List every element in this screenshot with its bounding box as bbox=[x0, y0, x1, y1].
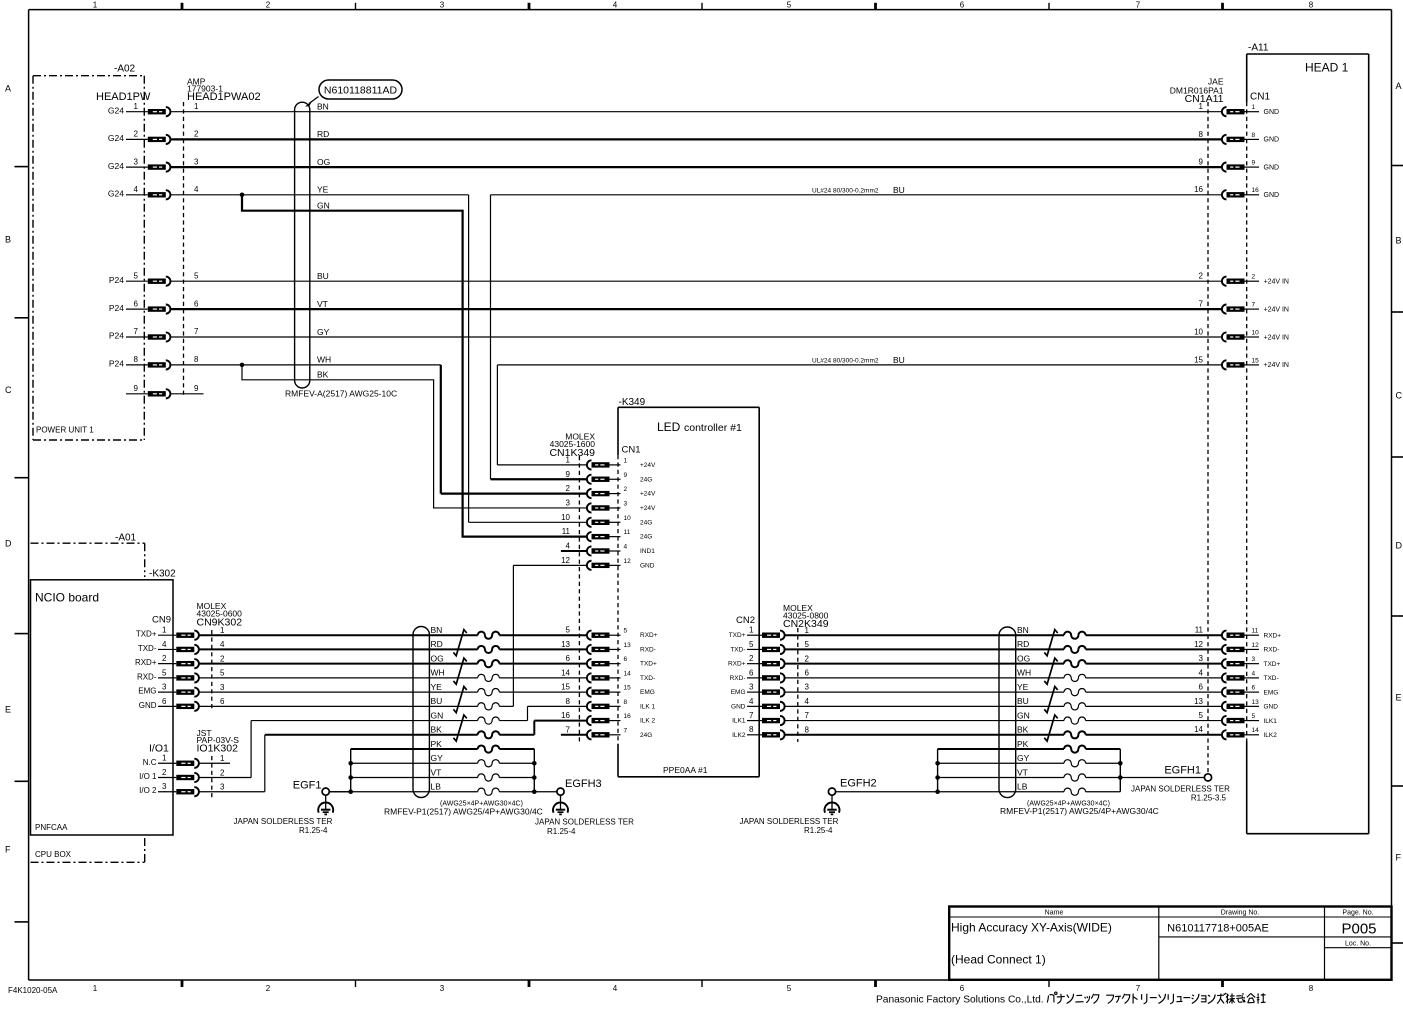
svg-text:2: 2 bbox=[266, 1, 271, 10]
wire YE CN2-3 to CN1A11-6 bbox=[785, 682, 1222, 696]
connector CN9K302 (MOLEX 43025-0600) bbox=[135, 601, 242, 711]
ground terminal EGF1 bbox=[234, 780, 351, 836]
svg-text:2: 2 bbox=[266, 984, 271, 993]
svg-text:BU: BU bbox=[317, 271, 329, 281]
svg-text:2: 2 bbox=[805, 654, 810, 663]
svg-text:GND: GND bbox=[1264, 109, 1280, 116]
svg-text:WH: WH bbox=[1017, 668, 1031, 678]
svg-text:5: 5 bbox=[194, 271, 199, 280]
svg-text:7: 7 bbox=[134, 327, 139, 336]
svg-text:7: 7 bbox=[749, 711, 754, 720]
svg-text:EMG: EMG bbox=[1264, 689, 1279, 696]
svg-text:HEAD1PW: HEAD1PW bbox=[96, 91, 151, 103]
stub CN1K349-7 24G bbox=[561, 734, 587, 736]
svg-text:1: 1 bbox=[566, 455, 571, 464]
svg-text:+24V IN: +24V IN bbox=[1264, 334, 1290, 341]
wire VT P24-6 to CN1A11-7 bbox=[170, 299, 1222, 309]
svg-text:3: 3 bbox=[194, 157, 199, 166]
svg-text:ILK 2: ILK 2 bbox=[640, 718, 656, 725]
svg-text:IO1K302: IO1K302 bbox=[197, 743, 239, 755]
svg-text:PPE0AA #1: PPE0AA #1 bbox=[663, 765, 708, 775]
svg-text:E: E bbox=[5, 705, 11, 715]
title block bbox=[949, 907, 1391, 980]
svg-text:4: 4 bbox=[134, 185, 139, 194]
svg-text:EMG: EMG bbox=[731, 689, 746, 696]
svg-text:10: 10 bbox=[1252, 329, 1260, 336]
wire GY P24-7 to CN1A11-10 bbox=[170, 327, 1222, 337]
svg-text:OG: OG bbox=[1017, 653, 1030, 663]
svg-text:ILK 1: ILK 1 bbox=[640, 703, 656, 710]
svg-text:8: 8 bbox=[1309, 1, 1314, 10]
svg-text:10: 10 bbox=[1194, 327, 1203, 336]
svg-text:controller #1: controller #1 bbox=[684, 422, 742, 434]
svg-text:BN: BN bbox=[431, 625, 443, 635]
svg-text:RXD+: RXD+ bbox=[135, 658, 157, 667]
wire BK CN2-8 to CN1A11-14 bbox=[785, 725, 1222, 739]
svg-text:3: 3 bbox=[1252, 656, 1256, 663]
junction YE/GN bbox=[240, 193, 245, 198]
svg-text:12: 12 bbox=[1252, 642, 1260, 649]
svg-text:B: B bbox=[5, 235, 11, 245]
svg-text:6: 6 bbox=[566, 654, 571, 663]
wire GN IO1-2 to CN1K349-8 bbox=[199, 706, 587, 777]
svg-text:RXD-: RXD- bbox=[1264, 647, 1280, 654]
svg-text:11: 11 bbox=[624, 529, 631, 536]
svg-text:RXD-: RXD- bbox=[640, 646, 656, 653]
wire WH CN9-5 to CN1K349-14 bbox=[199, 668, 587, 682]
wire WH P24-8 to CN1K349-2 bbox=[170, 355, 587, 494]
svg-text:Drawing No.: Drawing No. bbox=[1221, 910, 1260, 917]
svg-text:1: 1 bbox=[1252, 104, 1256, 111]
svg-text:3: 3 bbox=[162, 683, 167, 692]
svg-text:F: F bbox=[5, 845, 11, 855]
svg-text:2: 2 bbox=[749, 654, 754, 663]
svg-text:BU: BU bbox=[431, 696, 443, 706]
svg-text:3: 3 bbox=[624, 500, 628, 507]
svg-text:RXD-: RXD- bbox=[137, 672, 157, 681]
svg-text:EGF1: EGF1 bbox=[293, 780, 322, 792]
svg-text:3: 3 bbox=[1199, 654, 1204, 663]
wire BK to CN1K349-3 bbox=[242, 365, 587, 508]
svg-text:5: 5 bbox=[134, 271, 139, 280]
junction WH/BK bbox=[240, 363, 245, 368]
svg-text:3: 3 bbox=[440, 984, 445, 993]
svg-text:7: 7 bbox=[1136, 1, 1141, 10]
svg-text:5: 5 bbox=[787, 1, 792, 10]
svg-text:-K349: -K349 bbox=[619, 397, 646, 408]
svg-text:3: 3 bbox=[162, 782, 167, 791]
svg-text:7: 7 bbox=[1199, 300, 1204, 309]
svg-text:14: 14 bbox=[1194, 725, 1203, 734]
svg-text:ILK2: ILK2 bbox=[1264, 732, 1278, 739]
svg-text:-A11: -A11 bbox=[1248, 43, 1269, 54]
svg-text:1: 1 bbox=[220, 626, 225, 635]
svg-text:6: 6 bbox=[220, 697, 225, 706]
zone letters right bbox=[1396, 81, 1403, 863]
svg-text:GND: GND bbox=[1264, 137, 1280, 144]
svg-text:RMFEV-P1(2517) AWG25/4P+AWG30/: RMFEV-P1(2517) AWG25/4P+AWG30/4C bbox=[1000, 806, 1159, 816]
svg-text:G24: G24 bbox=[108, 133, 124, 143]
wire LB left bbox=[329, 782, 557, 796]
wire OG G24-3 to CN1A11-9 bbox=[170, 157, 1222, 167]
svg-text:TXD+: TXD+ bbox=[136, 630, 157, 639]
head unit box -A11 bbox=[1247, 43, 1369, 834]
svg-text:D: D bbox=[5, 539, 12, 549]
connector CN1K349 (MOLEX 43025-1600) bbox=[549, 432, 657, 745]
svg-text:2: 2 bbox=[220, 654, 225, 663]
svg-text:-A02: -A02 bbox=[114, 64, 136, 75]
svg-text:9: 9 bbox=[134, 384, 139, 393]
svg-text:2: 2 bbox=[1199, 272, 1204, 281]
svg-text:OG: OG bbox=[431, 653, 444, 663]
svg-text:R1.25-4: R1.25-4 bbox=[299, 826, 328, 835]
wire BU P24-5 to CN1A11-2 bbox=[170, 271, 1222, 281]
wire PK shield drain left bbox=[351, 739, 535, 753]
wire BU CN2-4 to CN1A11-13 bbox=[785, 696, 1222, 710]
svg-text:1: 1 bbox=[805, 626, 810, 635]
svg-text:+24V IN: +24V IN bbox=[1264, 362, 1290, 369]
power unit box -A02 bbox=[33, 64, 151, 441]
svg-text:8: 8 bbox=[805, 725, 810, 734]
wire N.C stub IO1-1 bbox=[199, 762, 230, 764]
svg-text:5: 5 bbox=[805, 640, 810, 649]
svg-text:RMFEV-P1(2517) AWG25/4P+AWG30/: RMFEV-P1(2517) AWG25/4P+AWG30/4C bbox=[384, 807, 543, 817]
svg-text:EGFH1: EGFH1 bbox=[1164, 765, 1201, 777]
wire GY left bbox=[351, 753, 535, 767]
svg-text:EMG: EMG bbox=[640, 689, 655, 696]
connector HEAD1PWA02 (AMP 177903-1) bbox=[108, 77, 261, 399]
svg-text:BK: BK bbox=[1017, 725, 1029, 735]
svg-text:3: 3 bbox=[220, 783, 225, 792]
svg-text:G24: G24 bbox=[108, 189, 124, 199]
wire GN CN2-7 to CN1A11-5 bbox=[785, 710, 1222, 724]
svg-text:YE: YE bbox=[431, 682, 443, 692]
svg-text:8: 8 bbox=[749, 725, 754, 734]
svg-text:7: 7 bbox=[805, 711, 810, 720]
svg-text:4: 4 bbox=[194, 185, 199, 194]
svg-text:TXD+: TXD+ bbox=[729, 632, 746, 639]
svg-text:1: 1 bbox=[162, 626, 167, 635]
svg-text:+24V: +24V bbox=[640, 462, 656, 469]
svg-text:12: 12 bbox=[1194, 640, 1203, 649]
svg-text:A: A bbox=[1396, 81, 1402, 91]
svg-text:7: 7 bbox=[194, 327, 199, 336]
svg-text:+24V: +24V bbox=[640, 505, 656, 512]
svg-text:GN: GN bbox=[431, 710, 444, 720]
wire YE G24-4 to CN1K349-10 bbox=[170, 185, 587, 523]
svg-text:6: 6 bbox=[134, 299, 139, 308]
svg-text:GY: GY bbox=[1017, 753, 1030, 763]
svg-text:HEAD 1: HEAD 1 bbox=[1305, 61, 1349, 75]
svg-text:4: 4 bbox=[1252, 670, 1256, 677]
svg-text:LED: LED bbox=[657, 420, 681, 434]
svg-text:6: 6 bbox=[194, 299, 199, 308]
wire VT left bbox=[351, 767, 535, 781]
svg-text:IND1: IND1 bbox=[640, 548, 655, 555]
svg-text:1: 1 bbox=[93, 984, 98, 993]
ground terminal EGFH3 bbox=[535, 778, 634, 836]
zone letters left bbox=[5, 84, 12, 855]
ground terminal EGFH2 bbox=[740, 778, 938, 836]
twisted pair marks left cable bbox=[453, 630, 466, 742]
svg-text:R1.25-3.5: R1.25-3.5 bbox=[1191, 794, 1227, 803]
svg-text:BU: BU bbox=[893, 355, 905, 365]
wire WH CN2-6 to CN1A11-4 bbox=[785, 668, 1222, 682]
svg-text:2: 2 bbox=[134, 130, 139, 139]
svg-text:1: 1 bbox=[220, 754, 225, 763]
svg-text:7: 7 bbox=[1252, 302, 1256, 309]
wire BK IO1-3 to CN1K349-16 bbox=[199, 721, 587, 792]
svg-text:RD: RD bbox=[431, 639, 443, 649]
svg-text:4: 4 bbox=[749, 697, 754, 706]
svg-text:R1.25-4: R1.25-4 bbox=[547, 827, 576, 836]
svg-text:3: 3 bbox=[566, 498, 571, 507]
svg-text:TXD-: TXD- bbox=[1264, 675, 1279, 682]
svg-text:9: 9 bbox=[1199, 158, 1204, 167]
wire BN G24-1 to CN1A11-1 bbox=[170, 102, 1222, 112]
svg-text:5: 5 bbox=[787, 984, 792, 993]
svg-text:EGFH2: EGFH2 bbox=[840, 778, 877, 790]
svg-text:24G: 24G bbox=[640, 534, 652, 541]
svg-text:TXD-: TXD- bbox=[640, 675, 655, 682]
cable label bubble N610118811AD bbox=[306, 80, 403, 107]
svg-text:EMG: EMG bbox=[138, 687, 156, 696]
svg-text:4: 4 bbox=[805, 697, 810, 706]
zone numbers top bbox=[93, 1, 1314, 10]
svg-text:16: 16 bbox=[1194, 185, 1203, 194]
svg-text:5: 5 bbox=[162, 668, 167, 677]
svg-text:POWER UNIT 1: POWER UNIT 1 bbox=[36, 426, 94, 435]
svg-text:GND: GND bbox=[139, 701, 157, 710]
svg-text:CN9: CN9 bbox=[152, 615, 171, 626]
svg-text:LB: LB bbox=[431, 782, 442, 792]
wire RD CN2-5 to CN1A11-12 bbox=[785, 639, 1222, 653]
svg-text:4: 4 bbox=[220, 640, 225, 649]
svg-text:GY: GY bbox=[431, 753, 444, 763]
svg-text:ILK2: ILK2 bbox=[732, 732, 746, 739]
svg-text:High Accuracy XY-Axis(WIDE): High Accuracy XY-Axis(WIDE) bbox=[951, 921, 1112, 935]
svg-text:CN1K349: CN1K349 bbox=[549, 447, 595, 459]
svg-text:GND: GND bbox=[1264, 192, 1280, 199]
svg-text:B: B bbox=[1396, 236, 1402, 246]
svg-text:14: 14 bbox=[624, 670, 632, 677]
svg-text:GND: GND bbox=[731, 703, 746, 710]
svg-text:JAPAN SOLDERLESS TER: JAPAN SOLDERLESS TER bbox=[535, 818, 634, 827]
svg-text:5: 5 bbox=[1199, 711, 1204, 720]
svg-text:8: 8 bbox=[1309, 984, 1314, 993]
svg-text:3: 3 bbox=[134, 157, 139, 166]
svg-text:1: 1 bbox=[162, 754, 167, 763]
svg-text:6: 6 bbox=[805, 668, 810, 677]
svg-text:5: 5 bbox=[1252, 713, 1256, 720]
svg-text:24G: 24G bbox=[640, 519, 652, 526]
svg-text:8: 8 bbox=[1199, 130, 1204, 139]
svg-text:WH: WH bbox=[317, 355, 331, 365]
svg-text:-K302: -K302 bbox=[149, 569, 176, 580]
svg-text:15: 15 bbox=[561, 683, 570, 692]
svg-text:15: 15 bbox=[1252, 357, 1260, 364]
svg-text:4: 4 bbox=[613, 1, 618, 10]
svg-text:RMFEV-A(2517) AWG25-10C: RMFEV-A(2517) AWG25-10C bbox=[285, 389, 397, 399]
svg-text:G24: G24 bbox=[108, 105, 124, 115]
svg-text:CPU BOX: CPU BOX bbox=[35, 850, 72, 859]
svg-text:-A01: -A01 bbox=[115, 533, 137, 544]
svg-text:16: 16 bbox=[624, 713, 632, 720]
svg-text:13: 13 bbox=[561, 640, 570, 649]
ground bus EGFH2 side bbox=[935, 749, 940, 794]
svg-text:A: A bbox=[5, 84, 11, 94]
svg-text:RXD+: RXD+ bbox=[728, 661, 746, 668]
svg-text:11: 11 bbox=[1195, 626, 1204, 635]
svg-text:TXD-: TXD- bbox=[730, 646, 745, 653]
svg-text:7: 7 bbox=[566, 725, 571, 734]
svg-text:2: 2 bbox=[162, 768, 167, 777]
svg-text:7: 7 bbox=[624, 727, 628, 734]
company name footer bbox=[876, 992, 1266, 1005]
svg-text:12: 12 bbox=[561, 556, 570, 565]
svg-text:YE: YE bbox=[317, 185, 329, 195]
svg-text:4: 4 bbox=[624, 544, 628, 551]
svg-text:6: 6 bbox=[624, 656, 628, 663]
svg-text:9: 9 bbox=[566, 470, 571, 479]
connector CN2K349 (MOLEX 43025-0800) bbox=[728, 603, 829, 742]
CPU BOX bracket bbox=[31, 838, 145, 862]
svg-text:1: 1 bbox=[93, 1, 98, 10]
svg-text:CN1: CN1 bbox=[1250, 92, 1270, 103]
svg-text:GND: GND bbox=[1264, 164, 1280, 171]
cable shield RMFEV-P1 right bbox=[999, 627, 1159, 816]
svg-text:8: 8 bbox=[194, 355, 199, 364]
wire LB right bbox=[938, 782, 1121, 796]
svg-text:5: 5 bbox=[624, 628, 628, 635]
ground terminal EGFH1 bbox=[1120, 765, 1230, 803]
svg-text:2: 2 bbox=[624, 486, 628, 493]
svg-text:GND: GND bbox=[1264, 704, 1279, 711]
wire BU CN1K349-1 to CN1A11-15 bbox=[497, 355, 1222, 465]
connector IO1K302 (JST PAP-03V-S) bbox=[139, 728, 239, 798]
svg-text:JAPAN SOLDERLESS TER: JAPAN SOLDERLESS TER bbox=[234, 817, 333, 826]
svg-text:VT: VT bbox=[1017, 767, 1028, 777]
svg-text:PK: PK bbox=[431, 739, 443, 749]
svg-text:TXD+: TXD+ bbox=[1264, 661, 1281, 668]
svg-text:P24: P24 bbox=[109, 275, 124, 285]
svg-text:N610117718+005AE: N610117718+005AE bbox=[1167, 923, 1269, 935]
svg-text:6: 6 bbox=[1199, 683, 1204, 692]
svg-text:2: 2 bbox=[1252, 274, 1256, 281]
wire BN CN2-1 to CN1A11-11 bbox=[785, 625, 1222, 639]
svg-text:PNFCAA: PNFCAA bbox=[35, 823, 68, 832]
wire RD CN9-4 to CN1K349-13 bbox=[199, 639, 587, 653]
svg-text:16: 16 bbox=[1252, 187, 1260, 194]
svg-text:BU: BU bbox=[1017, 696, 1029, 706]
node -A01 bracket bbox=[31, 533, 145, 578]
svg-text:6: 6 bbox=[162, 697, 167, 706]
svg-text:P24: P24 bbox=[109, 303, 124, 313]
svg-text:Loc. No.: Loc. No. bbox=[1345, 941, 1371, 948]
svg-text:F4K1020-05A: F4K1020-05A bbox=[8, 986, 58, 995]
svg-text:BU: BU bbox=[893, 185, 905, 195]
svg-text:9: 9 bbox=[1252, 160, 1256, 167]
svg-text:11: 11 bbox=[1252, 628, 1259, 635]
svg-text:VT: VT bbox=[431, 767, 442, 777]
svg-text:BK: BK bbox=[317, 370, 329, 380]
ground bus EGFH1 side bbox=[1118, 749, 1123, 792]
svg-text:UL#24 80/300-0.2mm2: UL#24 80/300-0.2mm2 bbox=[812, 187, 879, 194]
ground bus EGF1 side bbox=[348, 749, 353, 794]
svg-text:TXD+: TXD+ bbox=[640, 661, 657, 668]
cable shield RMFEV-A(2517) AWG25-10C bbox=[285, 102, 397, 398]
svg-text:GY: GY bbox=[317, 327, 330, 337]
stub CN1K349-4 IND1 bbox=[561, 550, 587, 552]
svg-text:1: 1 bbox=[749, 626, 754, 635]
svg-text:14: 14 bbox=[1252, 727, 1260, 734]
svg-text:ILK1: ILK1 bbox=[732, 718, 746, 725]
svg-text:5: 5 bbox=[220, 669, 225, 678]
svg-text:RXD+: RXD+ bbox=[1264, 633, 1282, 640]
sheet code F4K1020-05A bbox=[8, 986, 58, 995]
svg-text:15: 15 bbox=[624, 685, 632, 692]
svg-text:F: F bbox=[1396, 853, 1402, 863]
svg-text:I/O 1: I/O 1 bbox=[139, 772, 157, 781]
wire GY right bbox=[938, 753, 1121, 767]
connector CN1A11 (JAE DM1R016PA1) bbox=[1170, 77, 1289, 774]
svg-text:13: 13 bbox=[1252, 699, 1260, 706]
svg-text:R1.25-4: R1.25-4 bbox=[804, 826, 833, 835]
svg-text:NCIO board: NCIO board bbox=[35, 591, 99, 605]
svg-text:GN: GN bbox=[1017, 710, 1030, 720]
svg-text:+24V IN: +24V IN bbox=[1264, 279, 1290, 286]
svg-text:1: 1 bbox=[1199, 102, 1204, 111]
LED controller box -K349 bbox=[618, 397, 759, 777]
svg-text:4: 4 bbox=[1199, 668, 1204, 677]
wire YE CN9-3 to CN1K349-15 bbox=[199, 682, 587, 696]
svg-text:N.C: N.C bbox=[143, 758, 157, 767]
wire GN to CN1K349-11 bbox=[242, 195, 587, 537]
svg-text:3: 3 bbox=[749, 683, 754, 692]
svg-text:BN: BN bbox=[317, 102, 329, 112]
svg-text:1: 1 bbox=[134, 102, 139, 111]
svg-text:15: 15 bbox=[1194, 355, 1203, 364]
wire OG CN9-2 to CN1K349-6 bbox=[199, 653, 587, 667]
svg-text:9: 9 bbox=[624, 472, 628, 479]
svg-text:(Head Connect 1): (Head Connect 1) bbox=[951, 953, 1046, 967]
svg-text:13: 13 bbox=[624, 642, 632, 649]
svg-text:G24: G24 bbox=[108, 161, 124, 171]
svg-text:VT: VT bbox=[317, 299, 328, 309]
svg-text:JAPAN SOLDERLESS TER: JAPAN SOLDERLESS TER bbox=[1131, 785, 1230, 794]
svg-text:CN1A11: CN1A11 bbox=[1185, 93, 1224, 105]
svg-text:16: 16 bbox=[561, 711, 570, 720]
svg-text:BK: BK bbox=[431, 725, 443, 735]
wire BU CN1K349-9 to CN1A11-16 bbox=[491, 185, 1222, 479]
svg-text:RD: RD bbox=[317, 129, 329, 139]
svg-text:I/O 2: I/O 2 bbox=[139, 786, 157, 795]
svg-text:6: 6 bbox=[749, 668, 754, 677]
svg-text:LB: LB bbox=[1017, 782, 1028, 792]
svg-text:2: 2 bbox=[220, 768, 225, 777]
wire VT right bbox=[938, 767, 1121, 781]
zone numbers bottom bbox=[93, 984, 1314, 993]
svg-text:4: 4 bbox=[162, 640, 167, 649]
svg-text:RXD+: RXD+ bbox=[640, 632, 658, 639]
wire PK shield drain right bbox=[938, 739, 1121, 753]
svg-text:9: 9 bbox=[194, 384, 199, 393]
NCIO board box -K302 bbox=[31, 569, 177, 836]
svg-text:+24V: +24V bbox=[640, 491, 656, 498]
twisted pair marks right cable bbox=[1044, 630, 1057, 742]
svg-text:GND: GND bbox=[640, 562, 655, 569]
svg-text:10: 10 bbox=[561, 513, 570, 522]
